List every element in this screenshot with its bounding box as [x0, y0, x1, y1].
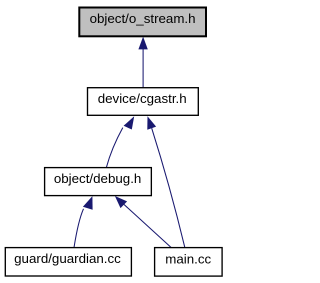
svg-text:device/cgastr.h: device/cgastr.h	[98, 91, 187, 106]
svg-text:object/debug.h: object/debug.h	[54, 171, 141, 186]
svg-text:guard/guardian.cc: guard/guardian.cc	[14, 251, 121, 266]
svg-text:object/o_stream.h: object/o_stream.h	[90, 11, 196, 26]
svg-text:main.cc: main.cc	[165, 251, 211, 266]
